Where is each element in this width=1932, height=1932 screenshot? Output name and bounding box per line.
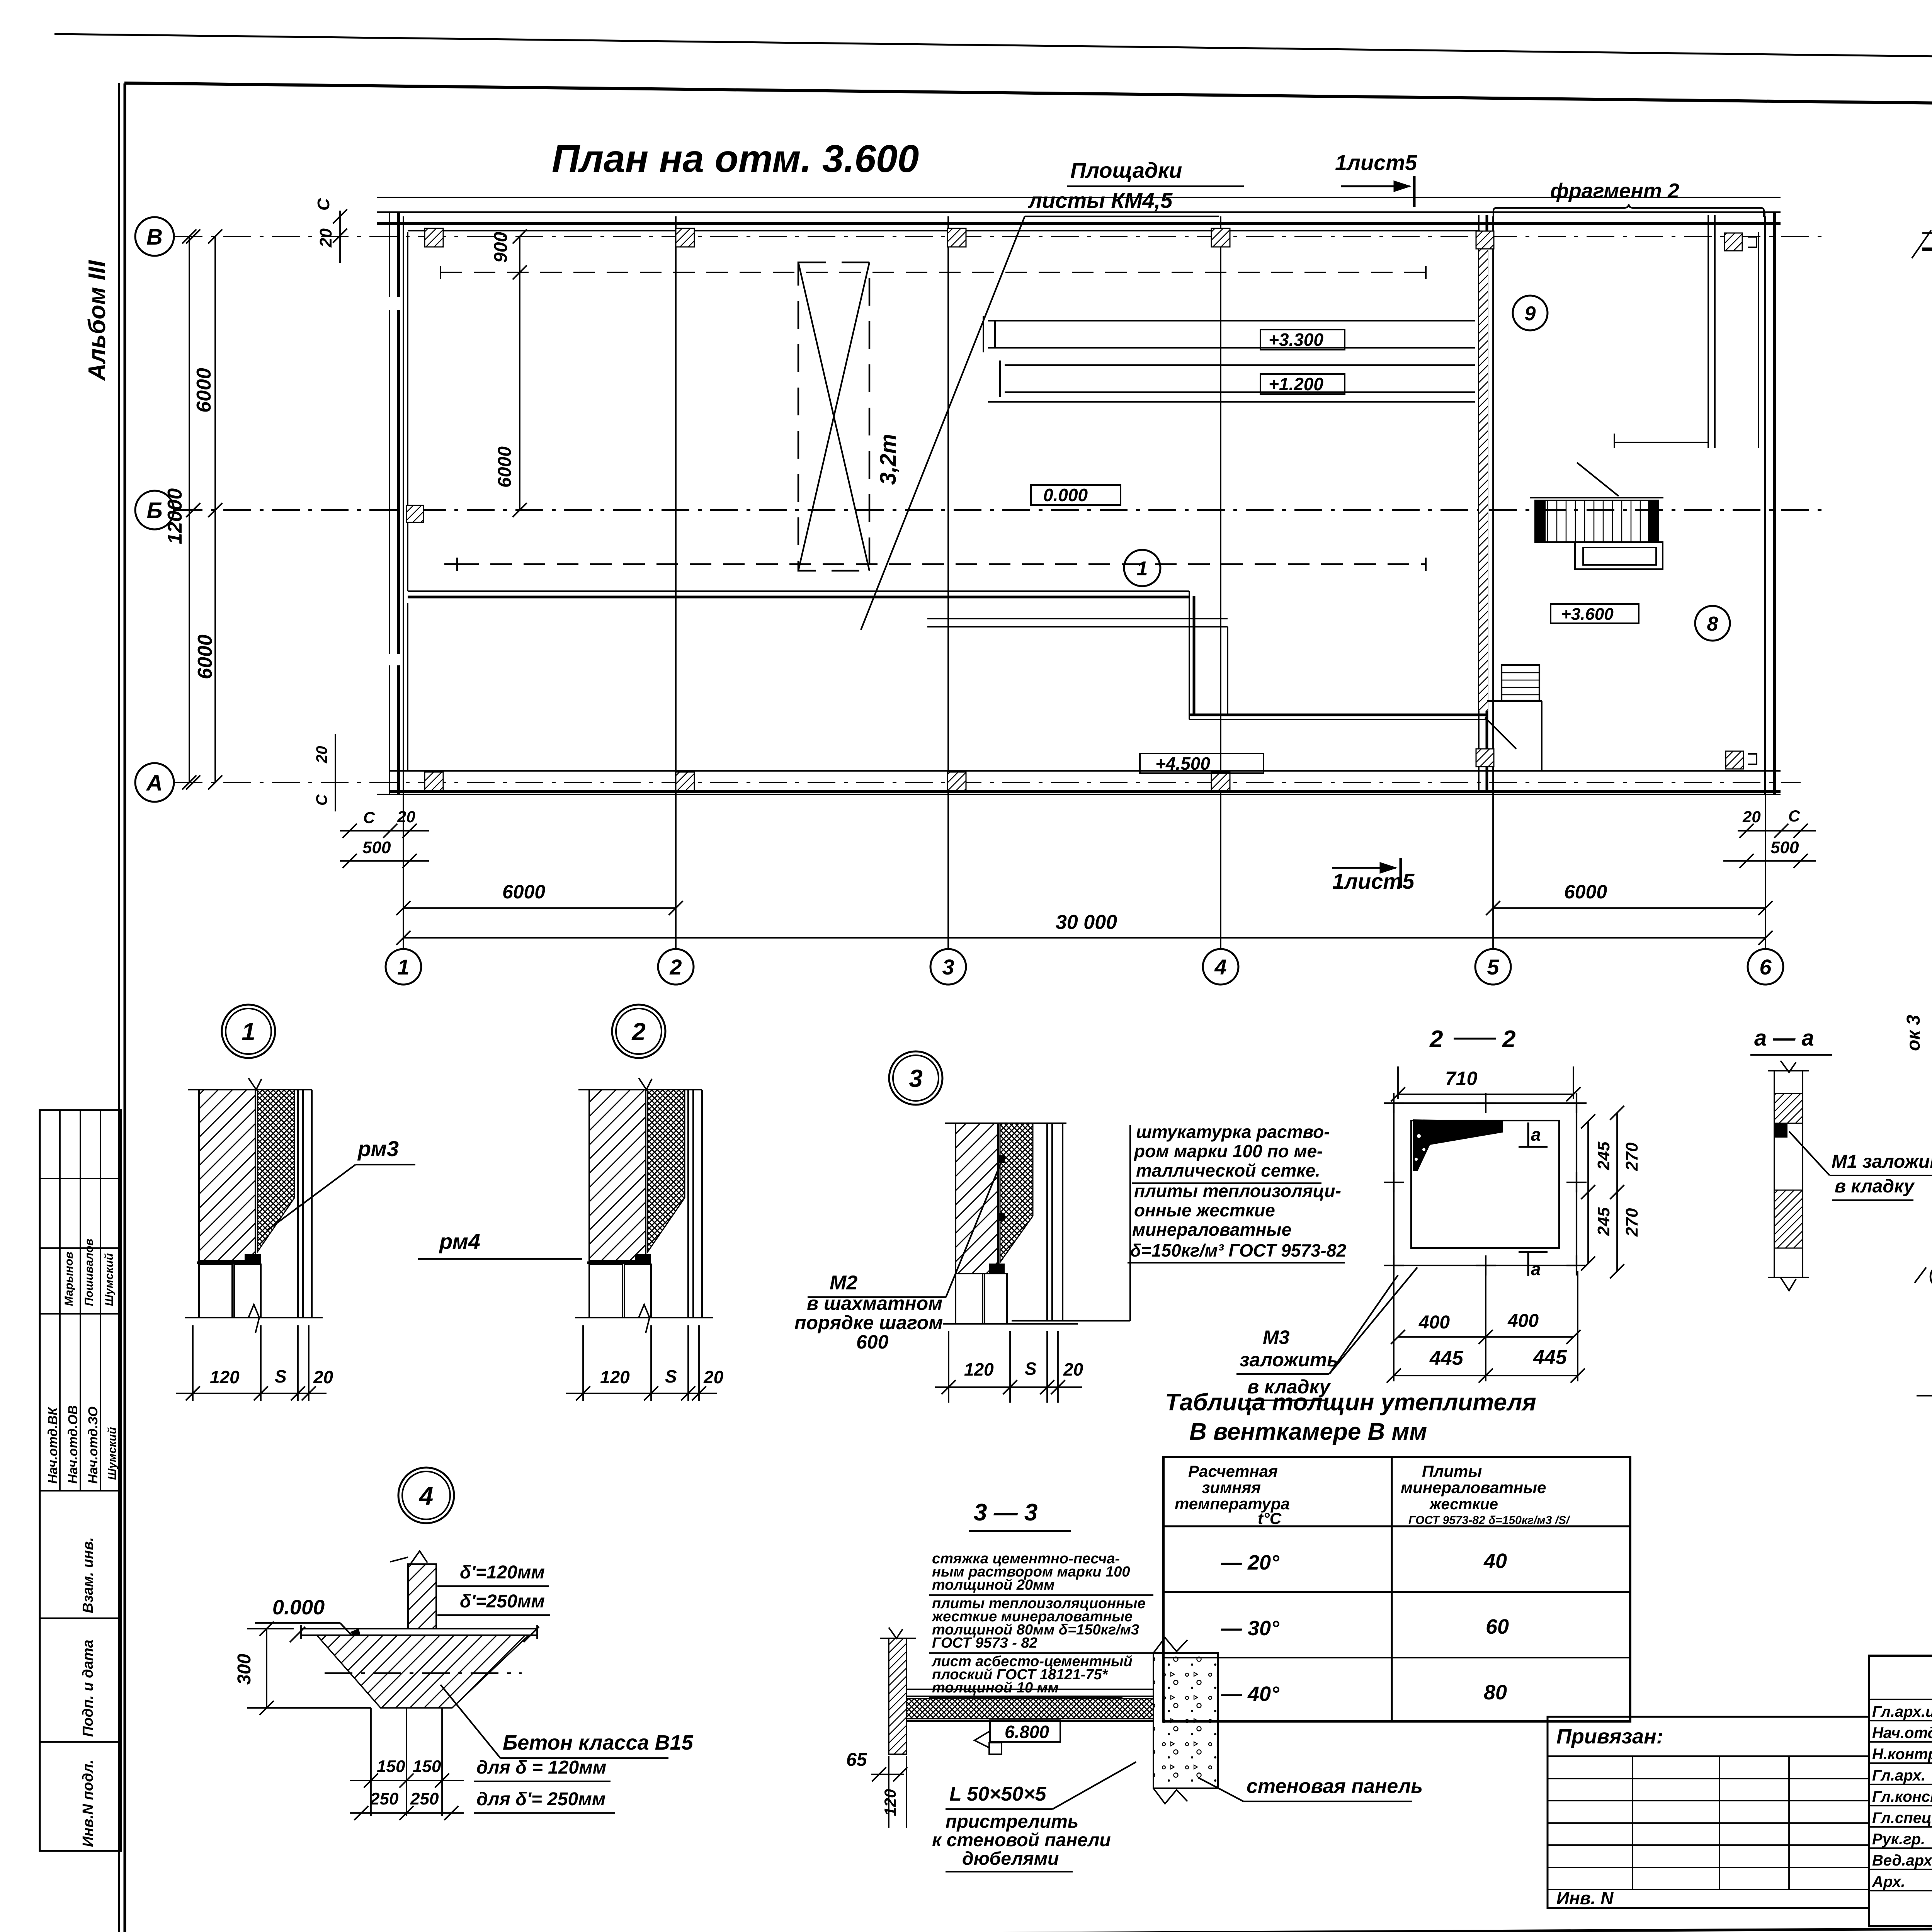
svg-text:40: 40 — [1483, 1549, 1507, 1573]
svg-text:6000: 6000 — [1564, 881, 1607, 903]
svg-text:5: 5 — [1487, 955, 1499, 979]
svg-text:для δ = 120мм: для δ = 120мм — [476, 1757, 606, 1778]
svg-text:150: 150 — [377, 1757, 405, 1776]
svg-text:В венткамере В мм: В венткамере В мм — [1189, 1418, 1427, 1445]
svg-text:ГОСТ 9573 - 82: ГОСТ 9573 - 82 — [932, 1635, 1037, 1651]
svg-text:1: 1 — [241, 1018, 255, 1046]
svg-text:Нач.отд.ЗО: Нач.отд.ЗО — [86, 1406, 100, 1484]
svg-text:120: 120 — [964, 1359, 994, 1379]
svg-text:500: 500 — [362, 838, 391, 857]
svg-text:+1.200: +1.200 — [1269, 374, 1323, 394]
svg-text:а: а — [1531, 1124, 1541, 1145]
svg-text:С: С — [363, 808, 375, 827]
svg-text:30 000: 30 000 — [1056, 911, 1117, 934]
svg-text:Площадки: Площадки — [1070, 158, 1182, 182]
svg-text:В: В — [146, 224, 163, 250]
svg-text:фрагмент 2: фрагмент 2 — [1550, 179, 1679, 202]
svg-text:Привязан:: Привязан: — [1556, 1725, 1663, 1748]
svg-text:1: 1 — [397, 955, 409, 979]
svg-text:20: 20 — [1063, 1359, 1083, 1379]
svg-text:150: 150 — [413, 1757, 441, 1776]
svg-text:рм4: рм4 — [439, 1229, 480, 1253]
svg-text:L 50×50×5: L 50×50×5 — [949, 1783, 1047, 1805]
svg-text:300: 300 — [234, 1654, 255, 1685]
svg-text:t°C: t°C — [1258, 1509, 1282, 1527]
svg-text:толщиной 20мм: толщиной 20мм — [932, 1577, 1054, 1593]
svg-text:Шумский: Шумский — [103, 1253, 116, 1306]
svg-text:Плиты: Плиты — [1422, 1462, 1482, 1480]
svg-text:Бетон класса В15: Бетон класса В15 — [503, 1731, 694, 1754]
svg-text:3 — 3: 3 — 3 — [974, 1499, 1037, 1526]
svg-text:20: 20 — [313, 1367, 333, 1387]
svg-text:+4.500: +4.500 — [1155, 753, 1210, 774]
svg-text:8: 8 — [1707, 613, 1718, 635]
svg-text:12000: 12000 — [164, 488, 186, 544]
svg-text:1лист5: 1лист5 — [1332, 869, 1415, 893]
svg-text:дюбелями: дюбелями — [962, 1849, 1059, 1869]
svg-text:120: 120 — [210, 1367, 240, 1387]
svg-text:20: 20 — [316, 228, 335, 248]
svg-text:500: 500 — [1770, 838, 1799, 857]
svg-text:для δ'= 250мм: для δ'= 250мм — [476, 1789, 605, 1810]
svg-text:245: 245 — [1594, 1141, 1613, 1170]
svg-text:270: 270 — [1622, 1142, 1641, 1171]
svg-text:толщиной 10 мм: толщиной 10 мм — [932, 1680, 1059, 1696]
svg-text:План на отм. 3.600: План на отм. 3.600 — [552, 137, 919, 180]
svg-text:а: а — [1531, 1259, 1541, 1279]
svg-text:20: 20 — [397, 808, 415, 826]
svg-text:120: 120 — [881, 1789, 899, 1816]
svg-text:онные жесткие: онные жесткие — [1134, 1200, 1275, 1220]
svg-text:2: 2 — [1502, 1026, 1515, 1053]
svg-text:ГОСТ 9573-82 δ=150кг/м3 /S/: ГОСТ 9573-82 δ=150кг/м3 /S/ — [1408, 1514, 1570, 1527]
svg-text:порядке шагом: порядке шагом — [794, 1312, 943, 1333]
svg-text:Таблица толщин утеплителя: Таблица толщин утеплителя — [1165, 1389, 1536, 1416]
svg-text:+3.300: +3.300 — [1269, 330, 1323, 350]
svg-text:20: 20 — [313, 746, 330, 764]
svg-text:δ'=120мм: δ'=120мм — [460, 1562, 545, 1583]
svg-text:20: 20 — [1742, 808, 1761, 826]
svg-text:— 20°: — 20° — [1221, 1551, 1279, 1574]
svg-text:δ=150кг/м³ ГОСТ 9573-82: δ=150кг/м³ ГОСТ 9573-82 — [1130, 1240, 1346, 1260]
svg-text:6.800: 6.800 — [1005, 1722, 1049, 1742]
svg-text:245: 245 — [1594, 1207, 1613, 1236]
svg-text:а — а: а — а — [1754, 1026, 1814, 1051]
svg-text:400: 400 — [1507, 1311, 1539, 1331]
svg-text:Арх.: Арх. — [1872, 1873, 1905, 1890]
svg-text:Подп. и дата: Подп. и дата — [80, 1639, 96, 1737]
svg-text:Пошивалов: Пошивалов — [83, 1239, 95, 1306]
svg-text:2: 2 — [631, 1018, 646, 1046]
svg-text:6000: 6000 — [502, 881, 545, 903]
svg-text:минераловатные: минераловатные — [1132, 1219, 1291, 1240]
svg-text:Шумский: Шумский — [106, 1427, 119, 1480]
svg-text:зимняя: зимняя — [1202, 1478, 1261, 1497]
svg-text:60: 60 — [1486, 1615, 1509, 1638]
svg-text:Гл.спец.: Гл.спец. — [1872, 1810, 1932, 1827]
svg-text:пристрелить: пристрелить — [946, 1811, 1078, 1832]
svg-text:0.000: 0.000 — [272, 1596, 325, 1619]
svg-text:— 30°: — 30° — [1221, 1617, 1279, 1640]
svg-text:1лист5: 1лист5 — [1335, 150, 1417, 175]
svg-text:4: 4 — [1214, 955, 1226, 979]
svg-text:С: С — [313, 794, 330, 806]
svg-text:Марынов: Марынов — [63, 1252, 75, 1306]
svg-text:6000: 6000 — [194, 634, 216, 679]
svg-text:Альбом III: Альбом III — [84, 260, 111, 381]
svg-text:штукатурка раство-: штукатурка раство- — [1136, 1122, 1330, 1142]
svg-text:Нач.отд.ОВ: Нач.отд.ОВ — [66, 1405, 80, 1484]
svg-text:400: 400 — [1418, 1312, 1450, 1333]
svg-text:80: 80 — [1484, 1681, 1507, 1704]
svg-text:таллической сетке.: таллической сетке. — [1136, 1160, 1320, 1180]
svg-text:в кладку: в кладку — [1835, 1176, 1915, 1197]
svg-text:минераловатные: минераловатные — [1401, 1478, 1546, 1497]
svg-text:М1 заложить: М1 заложить — [1832, 1151, 1932, 1172]
svg-text:445: 445 — [1429, 1347, 1464, 1369]
svg-text:рм3: рм3 — [357, 1136, 399, 1161]
svg-text:— 40°: — 40° — [1221, 1682, 1279, 1706]
svg-text:Гл.арх.: Гл.арх. — [1872, 1767, 1925, 1784]
svg-text:ром марки 100 по ме-: ром марки 100 по ме- — [1133, 1141, 1323, 1161]
svg-text:в шахматном: в шахматном — [807, 1293, 942, 1314]
svg-text:6000: 6000 — [193, 368, 215, 413]
svg-text:к стеновой панели: к стеновой панели — [932, 1830, 1111, 1850]
svg-text:270: 270 — [1622, 1208, 1641, 1237]
svg-text:65: 65 — [846, 1750, 867, 1770]
svg-text:Н.контр: Н.контр — [1872, 1746, 1932, 1763]
svg-text:+3.600: +3.600 — [1561, 605, 1614, 624]
svg-text:С: С — [314, 198, 333, 211]
svg-text:М3: М3 — [1263, 1327, 1290, 1348]
svg-text:Б: Б — [146, 498, 162, 523]
svg-text:ок 3: ок 3 — [1903, 1015, 1924, 1051]
svg-text:Расчетная: Расчетная — [1188, 1462, 1278, 1480]
svg-text:С: С — [1788, 807, 1800, 825]
svg-text:листы КМ4,5: листы КМ4,5 — [1027, 188, 1173, 213]
svg-text:2: 2 — [1429, 1026, 1443, 1053]
svg-text:600: 600 — [856, 1331, 889, 1353]
svg-text:Инв. N: Инв. N — [1556, 1888, 1614, 1908]
svg-text:3: 3 — [909, 1065, 923, 1092]
svg-text:заложить: заложить — [1240, 1349, 1338, 1371]
svg-text:6000: 6000 — [495, 446, 515, 488]
svg-text:М2: М2 — [830, 1272, 857, 1294]
svg-text:S: S — [665, 1366, 677, 1386]
svg-text:0.000: 0.000 — [1043, 485, 1088, 505]
svg-text:плиты теплоизоляци-: плиты теплоизоляци- — [1134, 1181, 1341, 1201]
svg-text:6: 6 — [1759, 955, 1772, 979]
svg-text:Гл.конст.: Гл.конст. — [1872, 1788, 1932, 1805]
svg-text:4: 4 — [418, 1481, 434, 1510]
svg-text:250: 250 — [370, 1789, 399, 1808]
svg-text:А: А — [146, 770, 163, 796]
svg-text:3,2т: 3,2т — [876, 434, 901, 485]
svg-text:Нач.отд.ВК: Нач.отд.ВК — [46, 1406, 60, 1484]
svg-text:1: 1 — [1137, 558, 1148, 580]
svg-text:S: S — [275, 1366, 287, 1386]
svg-text:3: 3 — [942, 955, 954, 979]
svg-text:Инв.N подл.: Инв.N подл. — [80, 1760, 96, 1847]
svg-text:Гл.арх.ин: Гл.арх.ин — [1872, 1703, 1932, 1720]
svg-text:250: 250 — [410, 1789, 439, 1808]
svg-text:20: 20 — [703, 1367, 724, 1387]
svg-text:Нач.отд: Нач.отд — [1872, 1725, 1932, 1742]
svg-text:стеновая панель: стеновая панель — [1247, 1775, 1423, 1798]
svg-text:Взам. инв.: Взам. инв. — [80, 1537, 96, 1613]
svg-text:S: S — [1025, 1359, 1037, 1379]
svg-text:Вед.арх.: Вед.арх. — [1872, 1852, 1932, 1869]
svg-text:120: 120 — [600, 1367, 630, 1387]
svg-text:δ'=250мм: δ'=250мм — [460, 1591, 545, 1612]
svg-text:900: 900 — [491, 232, 511, 263]
svg-text:9: 9 — [1525, 303, 1536, 325]
svg-text:445: 445 — [1533, 1346, 1567, 1369]
svg-text:Рук.гр.: Рук.гр. — [1872, 1831, 1925, 1848]
svg-text:жесткие: жесткие — [1429, 1496, 1498, 1513]
svg-text:2: 2 — [669, 955, 682, 979]
svg-text:710: 710 — [1445, 1068, 1478, 1089]
